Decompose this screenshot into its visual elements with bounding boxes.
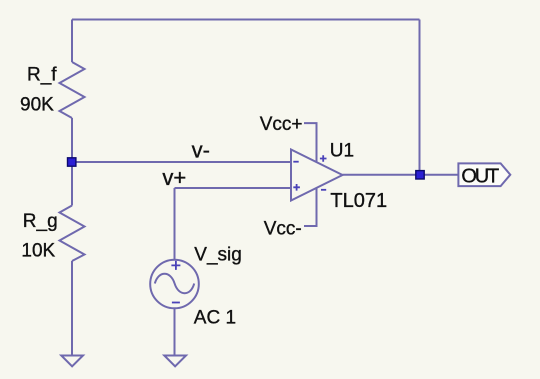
svg-text:AC 1: AC 1 xyxy=(194,308,236,329)
op-amp noninverting input plus mark xyxy=(293,184,300,191)
ground: under R_g xyxy=(61,356,83,367)
V_sig plus mark xyxy=(171,261,180,270)
svg-text:10K: 10K xyxy=(21,240,55,261)
svg-text:90K: 90K xyxy=(20,94,54,115)
wire: R_g bottom to ground xyxy=(71,261,73,355)
wire: op-amp output to OUT port xyxy=(343,174,459,176)
node: output junction (blue square) xyxy=(416,171,424,179)
svg-text:R_f: R_f xyxy=(27,65,57,86)
svg-text:Vcc-: Vcc- xyxy=(264,218,302,239)
wire: v+ corner down to V_sig top xyxy=(174,188,176,260)
wire: V_sig bottom to ground xyxy=(174,308,176,355)
wire: feedback vertical from output node to top xyxy=(419,20,421,175)
wire: top feedback horizontal xyxy=(72,19,420,21)
ground: under V_sig xyxy=(164,356,186,367)
wire: v+ net horizontal to op-amp noninverting input xyxy=(175,187,292,189)
resistor R_f xyxy=(60,62,85,118)
port OUT pentagon xyxy=(458,163,510,186)
resistor R_g xyxy=(60,206,85,262)
svg-text:OUT: OUT xyxy=(461,166,499,188)
svg-text:v+: v+ xyxy=(162,165,186,190)
op-amp Vcc+ pin plus mark xyxy=(320,155,327,162)
wire: v- net from node to op-amp inverting input xyxy=(72,161,291,163)
wire: R_f bottom to node xyxy=(71,118,73,162)
svg-text:Vcc+: Vcc+ xyxy=(260,114,303,135)
wire: node down to R_g xyxy=(71,162,73,206)
op-amp inverting input minus mark xyxy=(293,161,298,163)
wire: left vertical from top corner to R_f xyxy=(71,20,73,63)
svg-text:R_g: R_g xyxy=(23,211,58,232)
op-amp Vcc- pin minus mark xyxy=(321,189,326,191)
svg-text:v-: v- xyxy=(192,137,210,162)
svg-text:V_sig: V_sig xyxy=(194,244,242,265)
svg-text:TL071: TL071 xyxy=(330,190,387,212)
wire: Vcc+ stub xyxy=(304,123,317,162)
wire: Vcc- stub xyxy=(304,188,317,226)
V_sig minus mark xyxy=(172,302,180,304)
node: junction of R_f, R_g, v- (blue square) xyxy=(68,158,76,166)
op-amp U1 triangle xyxy=(291,150,343,201)
V_sig sine wave xyxy=(155,274,194,294)
voltage source V_sig circle xyxy=(150,260,199,309)
svg-text:U1: U1 xyxy=(330,140,354,161)
